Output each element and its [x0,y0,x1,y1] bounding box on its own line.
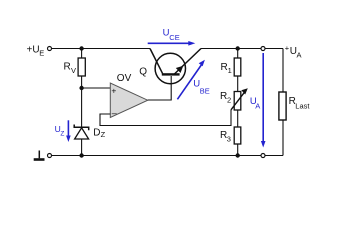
svg-text:–: – [112,108,117,118]
svg-text:R: R [64,62,71,73]
wire RV to DZ [81,76,83,127]
terminal +U_E [27,44,52,57]
resistor R3 [220,127,241,144]
wire right drop to RLast [282,49,284,93]
wire bottom rail right of terminal [266,155,284,157]
op-amp U1 (OV) [110,73,147,118]
svg-text:A: A [297,51,302,60]
zener diode DZ [74,125,105,140]
wire op-amp inverting input loop [100,110,231,126]
voltage arrow U_CE [148,28,196,46]
terminal +U_A [261,44,302,60]
wire top rail right [201,48,283,50]
wire bottom rail [52,155,261,157]
resistor RV [64,49,86,77]
resistor R2 (potentiometer) [220,88,248,110]
wire RLast to bottom rail [282,120,284,156]
wire R2 to R3 [237,110,239,127]
node: RV bottom junction [79,86,83,90]
svg-text:Last: Last [295,102,310,111]
svg-text:E: E [39,49,44,58]
wire DZ to bottom rail [81,139,83,156]
svg-text:Z: Z [101,130,106,139]
resistor R1 [221,49,241,77]
node: junction below R3 [236,153,240,157]
wire op-amp output to Q base [148,76,172,100]
svg-text:A: A [255,102,260,111]
svg-text:CE: CE [169,33,179,42]
node: junction above RV [79,46,83,50]
svg-text:OV: OV [117,73,132,84]
node: junction above R1 [236,46,240,50]
svg-text:2: 2 [227,96,231,105]
resistor RLast [279,92,310,120]
voltage arrow U_A [250,53,266,148]
ground [34,151,45,161]
svg-text:+: + [111,85,116,95]
svg-text:Z: Z [60,131,64,138]
wire to op-amp + input [82,87,111,89]
voltage arrow U_BE [177,60,209,100]
svg-text:V: V [71,66,76,75]
svg-text:3: 3 [227,135,231,144]
svg-text:+U: +U [27,44,40,55]
wire R3 to bottom rail [237,144,239,156]
svg-text:1: 1 [228,66,232,75]
node: zener bottom junction [79,153,83,157]
terminal ground [48,154,52,158]
svg-text:BE: BE [200,86,210,95]
svg-text:D: D [93,128,100,139]
wire top rail left [52,48,150,50]
svg-text:Q: Q [139,66,147,77]
transistor Q [139,49,201,84]
wire R1 to R2 [237,76,239,92]
terminal output bottom [261,154,265,158]
voltage arrow U_Z [55,120,71,142]
